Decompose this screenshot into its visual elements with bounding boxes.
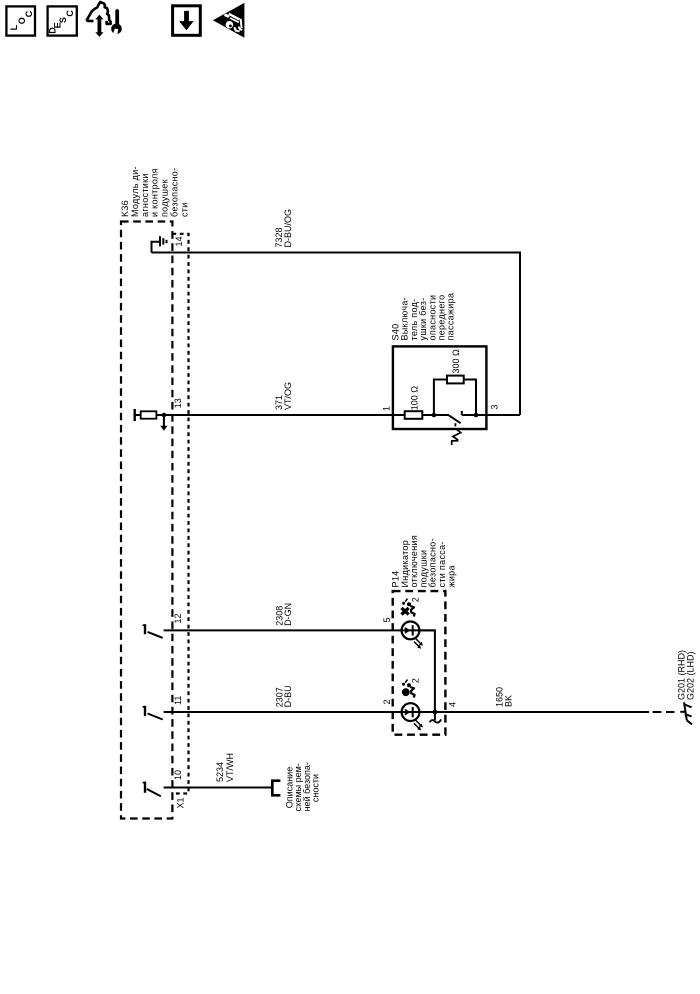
svg-text:300 Ω: 300 Ω: [451, 349, 461, 374]
splice stub with tilde: [434, 712, 436, 721]
node left of switch: [432, 413, 437, 418]
LOC icon box: [6, 6, 35, 35]
DESC icon box: [48, 6, 77, 35]
LED indicator (pin 2): [402, 703, 423, 730]
ground labels G201 (RHD) / G202 (LHD): [677, 650, 696, 700]
wire label 7328 D-BU/OG: [274, 209, 293, 248]
wire from contact to pin 3 node: [462, 414, 476, 416]
S40 label text: [391, 293, 456, 341]
wire 1650 from pin 4 to ground: [419, 711, 649, 713]
wire label 2307 D-BU: [274, 685, 293, 707]
connector X1 dotted boundary: [172, 234, 188, 794]
airbag-off pictogram (crossed airbag + occupant + 2): [402, 597, 421, 616]
transistor switch inside K36 at pin 11: [143, 706, 163, 720]
wire from resistor to switch node: [422, 414, 449, 416]
svg-text:и контроля: и контроля: [150, 168, 160, 217]
off-page connector bracket: [272, 781, 280, 796]
svg-text:сности: сности: [311, 774, 321, 802]
K36 module dashed box: [121, 222, 172, 819]
internal source bar at pin 13: [133, 409, 135, 421]
K36 label text: [120, 166, 189, 217]
svg-text:11: 11: [173, 696, 183, 705]
SRS warning triangle icon: [213, 3, 245, 38]
svg-text:L: L: [9, 24, 19, 30]
svg-text:безопасно-: безопасно-: [170, 168, 180, 217]
wire 7328 from pin 14 to S40 pin 3: [152, 253, 521, 416]
svg-text:Модуль ди-: Модуль ди-: [130, 166, 140, 217]
svg-text:14: 14: [174, 236, 184, 246]
P14 label text: [391, 535, 457, 588]
300 ohm branch wires: [434, 380, 476, 416]
svg-text:O: O: [17, 17, 27, 24]
svg-text:VT/OG: VT/OG: [283, 382, 293, 410]
svg-text:2: 2: [410, 597, 420, 602]
resistor 100 ohm in S40: [405, 411, 423, 419]
svg-text:сти: сти: [179, 202, 189, 217]
arrow at pin 13 internal: [163, 415, 165, 426]
switch actuator symbol below S40: [451, 423, 461, 445]
svg-text:G202 (LHD): G202 (LHD): [686, 651, 696, 700]
internal resistor at pin 13: [135, 414, 141, 416]
svg-text:пассажира: пассажира: [446, 293, 456, 341]
svg-text:жира: жира: [446, 565, 456, 587]
wire 2307 from pin 11 to P14 pin 2: [164, 711, 435, 713]
svg-text:2: 2: [382, 699, 392, 704]
resistor 300 ohm: [447, 376, 464, 384]
S40 box: [393, 346, 487, 429]
dashed continuation of ground wire: [653, 711, 675, 713]
svg-text:D-GN: D-GN: [283, 603, 293, 626]
svg-text:D-BU/OG: D-BU/OG: [283, 209, 293, 248]
node right of switch: [474, 413, 479, 418]
node at pin 13 internal: [162, 413, 167, 418]
svg-text:100 Ω: 100 Ω: [409, 386, 419, 411]
wire 371 from pin 13 to S40 pin 1: [164, 414, 405, 416]
down-arrow icon box: [173, 6, 201, 36]
svg-text:X1: X1: [176, 797, 186, 808]
svg-text:подушек: подушек: [160, 179, 170, 217]
svg-text:1: 1: [382, 406, 392, 411]
wire from LED1 to common: [419, 630, 435, 712]
svg-text:13: 13: [173, 398, 183, 408]
wire 5234 from pin 10: [164, 787, 272, 789]
wire 2308 from pin 12 to P14 pin 5: [164, 629, 435, 631]
svg-text:3: 3: [490, 405, 500, 410]
junction node at pin 4: [433, 710, 438, 715]
svg-text:4: 4: [447, 702, 457, 707]
wire label 1650 BK: [494, 687, 513, 707]
wire pin3 to corner: [476, 414, 520, 416]
wire label 5234 VT/WH: [215, 753, 235, 782]
svg-text:C: C: [24, 10, 34, 17]
off-page text: seat belt schematic description: [285, 762, 321, 811]
svg-text:2: 2: [410, 678, 420, 683]
LED indicator (pin 5): [402, 622, 423, 649]
switch blade S40: [449, 415, 461, 423]
transistor switch inside K36 at pin 10: [143, 782, 161, 797]
svg-text:10: 10: [173, 770, 183, 780]
svg-text:K36: K36: [120, 200, 130, 217]
chassis ground G201/G202: [680, 702, 692, 724]
wire label 2308 D-GN: [274, 603, 293, 626]
service/adjust icon (outline with double arrow and wrench): [86, 2, 121, 37]
svg-text:C: C: [65, 10, 75, 17]
svg-text:S: S: [58, 17, 68, 23]
svg-text:D-BU: D-BU: [283, 685, 293, 707]
svg-text:5: 5: [382, 617, 392, 622]
airbag-on pictogram (filled airbag + occupant + 2): [402, 678, 420, 697]
right contact tick: [461, 411, 463, 415]
svg-text:5234: 5234: [215, 762, 225, 782]
wire label 371 VT/OG: [274, 382, 293, 410]
svg-text:агностики: агностики: [140, 173, 150, 217]
svg-text:BK: BK: [504, 695, 514, 707]
P14 dashed box: [393, 591, 446, 735]
transistor switch inside K36 at pin 12: [143, 624, 163, 638]
svg-text:12: 12: [173, 613, 183, 623]
svg-text:VT/WH: VT/WH: [225, 753, 235, 782]
ground symbol inside K36 at pin 14: [152, 236, 167, 252]
